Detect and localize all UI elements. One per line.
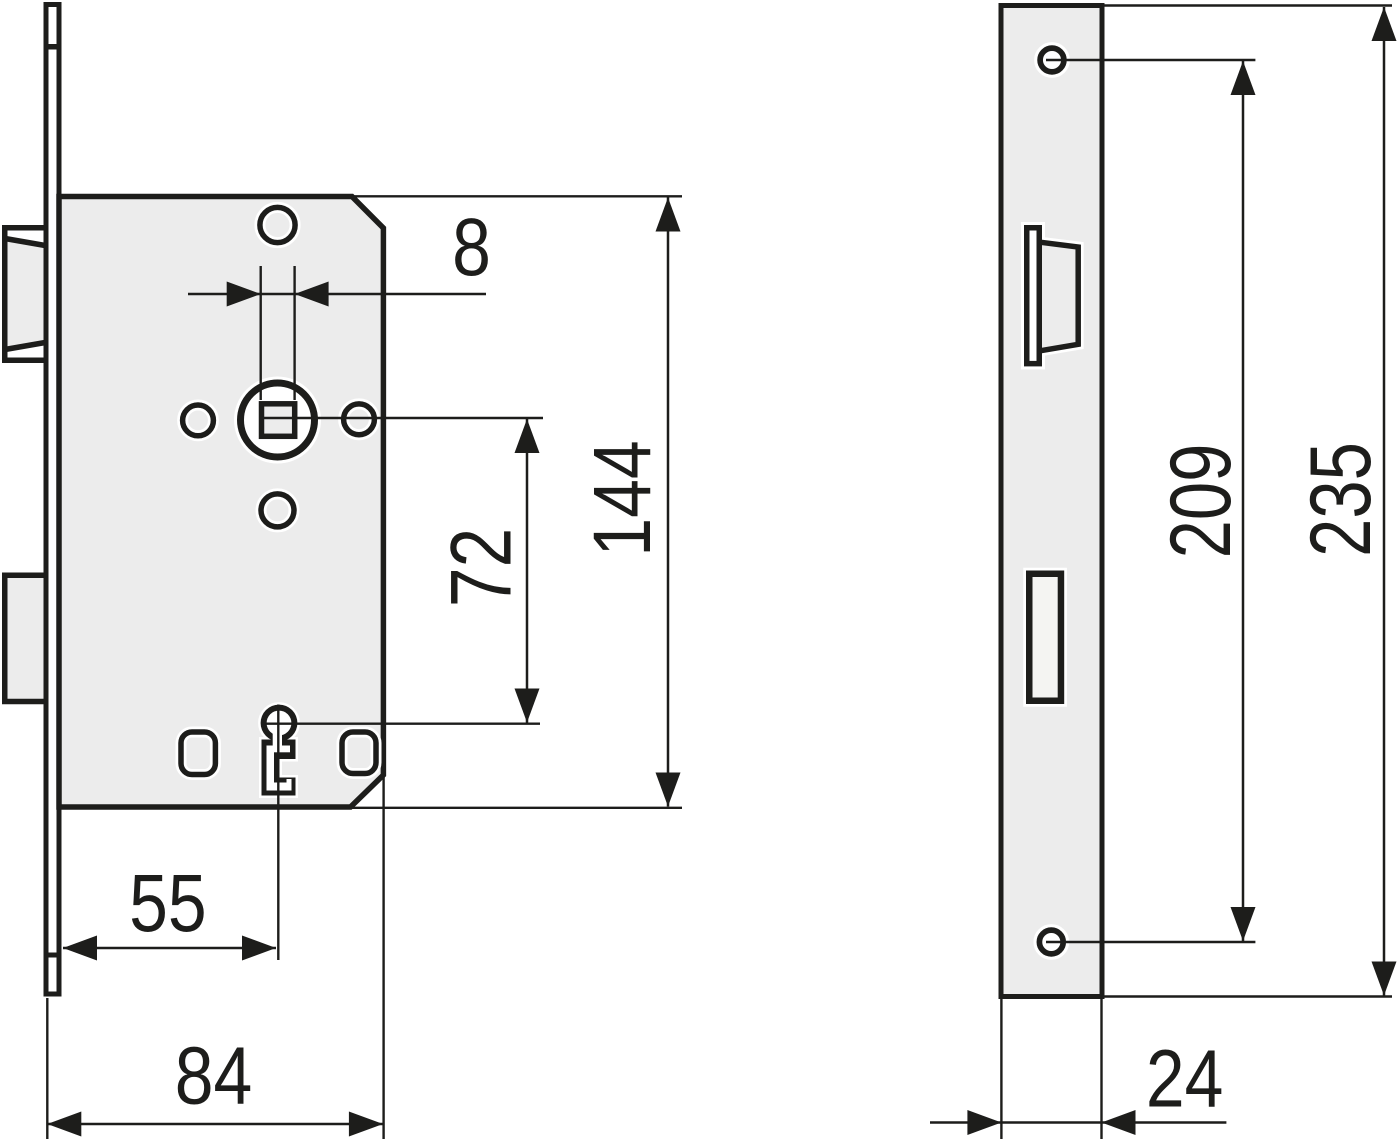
dim 72 arrow top <box>515 419 540 453</box>
dim 144 value label <box>577 440 669 556</box>
lower screw hole <box>261 494 294 527</box>
faceplate front plate <box>1001 6 1102 997</box>
dim 209 arrow bottom <box>1231 907 1256 941</box>
latch bolt (side view) body <box>5 228 48 361</box>
latch bolt lower bevel line <box>5 342 48 350</box>
dim 144 dimension line <box>667 198 670 807</box>
deadbolt (side view) <box>5 575 48 701</box>
dim 24 value label <box>1146 1033 1224 1125</box>
right fixing hole (rounded) <box>342 732 376 774</box>
left guide hole <box>183 405 214 436</box>
dim 55 dimension line <box>63 947 276 950</box>
dim 84 value label <box>175 1030 253 1122</box>
dim 84 extension line right (case edge) <box>382 777 384 1139</box>
dim 72 top leader line (from spindle centre) <box>262 417 543 419</box>
dim 84 extension line left (faceplate edge) <box>46 998 48 1139</box>
dim 209 dimension line <box>1242 61 1245 941</box>
dim 144 arrow top <box>656 198 681 232</box>
dim 209 value label <box>1153 444 1249 559</box>
dim 24 arrow right <box>1102 1110 1136 1135</box>
dim 144 arrow bottom <box>656 773 681 807</box>
dim 55 value label <box>129 858 207 950</box>
dim 72 value label <box>432 528 529 607</box>
dim 235 arrow top <box>1372 7 1397 41</box>
right guide hole <box>344 404 375 435</box>
dim 24 extension line right (plate right edge) <box>1100 999 1102 1139</box>
faceplate bottom screw hole <box>1039 930 1063 954</box>
dim 235 arrow bottom <box>1372 962 1397 996</box>
left fixing hole (rounded) <box>181 732 215 775</box>
faceplate top screw hole <box>1040 48 1064 72</box>
dim 72 dimension line <box>526 419 529 723</box>
dim 8 arrow right <box>295 282 329 307</box>
dim 72 bottom leader line (from keyhole centre) <box>261 723 540 725</box>
dim 8 dimension line <box>188 293 486 296</box>
svg-text:72: 72 <box>432 528 529 607</box>
dim 235 bottom leader line (from plate bottom edge) <box>1105 995 1393 997</box>
latch cutout halo <box>1027 228 1040 364</box>
faceplate strip top joint line <box>44 44 62 50</box>
dim 84 dimension line <box>47 1123 383 1126</box>
keyhole (bit-key profile) <box>261 705 298 796</box>
latch cutout (front view) <box>1027 228 1040 364</box>
top screw hole <box>260 207 295 242</box>
dim 144 top leader line <box>352 195 682 197</box>
dim 8 arrow left <box>227 282 261 307</box>
dim 209 bottom leader line (from bottom screw hole) <box>1046 941 1255 943</box>
dim 24 dimension line <box>930 1121 1226 1124</box>
dim 55 extension line (keyhole centre) <box>277 705 279 961</box>
spindle square hole (8 mm) <box>262 404 295 437</box>
spindle follower circle <box>241 383 315 457</box>
dim 24 extension line left (plate left edge) <box>1000 999 1002 1139</box>
svg-text:144: 144 <box>577 440 669 556</box>
svg-text:235: 235 <box>1293 442 1389 557</box>
dim 235 top leader line (from plate top edge) <box>1105 4 1393 6</box>
svg-text:55: 55 <box>129 858 207 950</box>
dim 55 arrow right <box>242 936 276 961</box>
dim 55 arrow left <box>63 936 97 961</box>
dim 84 arrow left <box>47 1112 81 1137</box>
dim 209 arrow top <box>1231 61 1256 95</box>
latch head (front projection) <box>1040 242 1078 351</box>
dim 84 arrow right <box>349 1112 383 1137</box>
dim 209 top leader line (from top screw hole) <box>1046 59 1255 61</box>
svg-text:209: 209 <box>1153 444 1249 559</box>
dim 8 extension line left <box>260 266 262 400</box>
dim 8 extension line right <box>293 266 295 400</box>
dim 144 bottom leader line <box>351 807 682 809</box>
faceplate strip bottom joint line <box>44 953 62 958</box>
dim 72 arrow bottom <box>515 689 540 723</box>
faceplate strip (side view) <box>46 5 59 995</box>
svg-text:84: 84 <box>175 1030 253 1122</box>
deadbolt cutout (front view) <box>1029 574 1061 701</box>
dim 8 value label <box>452 202 491 294</box>
dim 24 arrow left <box>967 1110 1001 1135</box>
latch bolt upper bevel line <box>5 239 48 247</box>
lock case body (chamfered corners) <box>59 197 383 808</box>
svg-text:8: 8 <box>452 202 491 294</box>
svg-text:24: 24 <box>1146 1033 1224 1125</box>
dim 235 value label <box>1293 442 1389 557</box>
dim 235 dimension line <box>1383 7 1386 996</box>
